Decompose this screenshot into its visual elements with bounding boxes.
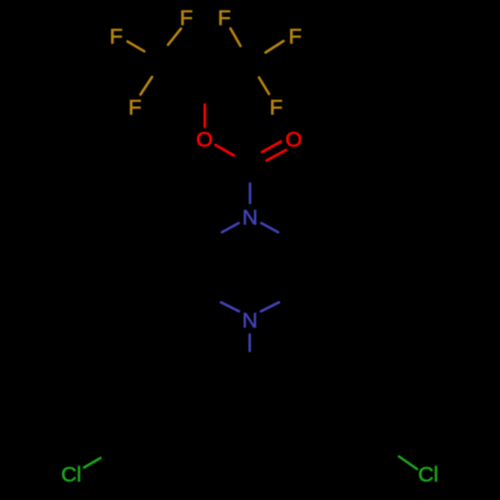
svg-text:O: O	[285, 128, 302, 152]
svg-text:Cl: Cl	[61, 463, 81, 487]
svg-text:N: N	[242, 205, 258, 229]
svg-text:O: O	[196, 128, 213, 152]
svg-text:F: F	[218, 6, 231, 30]
svg-text:F: F	[270, 96, 283, 120]
svg-text:F: F	[289, 25, 302, 49]
svg-text:Cl: Cl	[418, 463, 438, 487]
svg-text:F: F	[128, 96, 141, 120]
svg-text:N: N	[242, 308, 258, 332]
svg-text:F: F	[180, 6, 193, 30]
svg-text:F: F	[110, 25, 123, 49]
